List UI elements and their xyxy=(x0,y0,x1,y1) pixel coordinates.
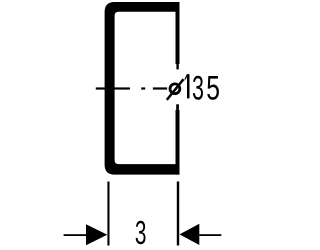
dimension text 135: digit 1 drawn as path xyxy=(185,74,190,98)
horizontal centerline long dash xyxy=(96,87,130,89)
right extension line xyxy=(177,182,179,246)
left dimension line xyxy=(64,234,86,236)
C-profile body (top bar, left wall, bottom bar) xyxy=(105,2,180,175)
left extension line xyxy=(107,182,109,246)
right arrowhead xyxy=(180,224,200,245)
svg-text:5: 5 xyxy=(206,69,220,107)
right wall lower segment xyxy=(176,110,180,175)
horizontal centerline short dash xyxy=(153,87,167,89)
diameter symbol circle xyxy=(170,84,180,94)
diameter symbol slash xyxy=(167,79,184,100)
horizontal centerline dot xyxy=(141,87,145,89)
svg-text:3: 3 xyxy=(135,214,147,250)
right dimension line xyxy=(199,234,221,236)
right wall centerline dash (lower) xyxy=(176,104,179,110)
right wall centerline dash (upper) xyxy=(176,64,178,69)
right wall upper segment xyxy=(176,2,180,64)
left arrowhead xyxy=(86,224,107,245)
svg-text:3: 3 xyxy=(192,69,204,107)
